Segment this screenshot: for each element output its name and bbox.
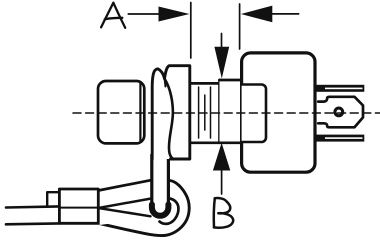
threaded section bbox=[192, 83, 220, 142]
hex nut outline bbox=[152, 66, 190, 159]
dimension line A right with arrowhead bbox=[270, 13, 299, 15]
label A bbox=[101, 3, 125, 28]
stud tube bbox=[152, 155, 169, 216]
arrow B up bbox=[221, 169, 223, 194]
ring terminal: wire bbox=[6, 206, 59, 207]
centerline dash-dot bbox=[73, 112, 380, 114]
hex nut silhouette fill bbox=[152, 66, 190, 159]
dimension line A left with arrowhead bbox=[128, 13, 160, 15]
thread line 2 bbox=[204, 95, 206, 130]
label B bbox=[214, 198, 233, 228]
cap (left small cylinder) bbox=[98, 81, 144, 143]
hex nut facet divider bbox=[165, 79, 174, 159]
stud tube tip thick arc bbox=[152, 205, 169, 216]
thread line 3 bbox=[210, 87, 212, 138]
shoulder section bbox=[220, 80, 241, 143]
thread line 1 bbox=[198, 87, 200, 138]
common bottom edge bbox=[192, 141, 241, 144]
cap face inner line bbox=[139, 84, 141, 142]
strap V lower line bbox=[98, 208, 150, 216]
strap top edge bbox=[98, 180, 150, 190]
divider threads/shoulder bbox=[218, 80, 221, 143]
extension line right (body left edge) bbox=[239, 4, 241, 49]
extension line left (nut right edge) bbox=[190, 3, 192, 59]
terminal bottom blade bbox=[317, 135, 365, 142]
arrow B down bbox=[221, 34, 223, 49]
body recess collar bbox=[242, 85, 266, 143]
strap V upper line bbox=[98, 199, 150, 208]
switch body bbox=[242, 53, 315, 172]
spade hole bbox=[333, 107, 344, 118]
terminal top blade bbox=[317, 85, 365, 92]
strap white cover bbox=[98, 179, 152, 225]
ring hole inner arc bbox=[160, 199, 179, 224]
ring loop outer boundary bbox=[100, 181, 190, 236]
left facet arc lower continuation bbox=[163, 75, 165, 87]
notch on barrel bbox=[47, 192, 59, 206]
terminal middle spade bbox=[318, 97, 363, 128]
crimp barrel bbox=[59, 189, 98, 223]
barrel seam bbox=[59, 207, 98, 209]
